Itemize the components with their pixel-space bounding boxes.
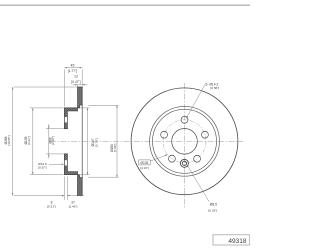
hatched hat face plate segment between bolt hole and center bore (top)	[64, 123, 67, 129]
wheel bolt hole (top)	[181, 116, 188, 123]
svg-text:[0.47"]: [0.47"]	[71, 80, 81, 84]
svg-text:Ø8.5: Ø8.5	[210, 202, 217, 206]
wheel bolt hole edges in section	[64, 117, 67, 166]
wheel bolt hole (upper left)	[161, 131, 168, 138]
dimension Ø68 [2.68"] center bore (left)	[46, 124, 64, 159]
svg-text:[2.68"]: [2.68"]	[51, 136, 55, 145]
hatched top flange/disc region of rotor cross-section	[64, 87, 82, 117]
dimension Ø158 [6.22"] hat outer diameter (left)	[30, 108, 64, 175]
wheel bolt hole (lower right)	[194, 155, 201, 162]
top border line	[0, 4, 250, 6]
dimension 45 [1.77"] overall width	[64, 68, 82, 107]
svg-text:[7.09"]: [7.09"]	[113, 144, 117, 153]
svg-text:[1.46"]: [1.46"]	[69, 204, 78, 208]
hat mounting face inboard side (bottom piece)	[66, 154, 68, 172]
svg-text:[4.13"]: [4.13"]	[140, 166, 149, 170]
svg-text:49318: 49318	[228, 238, 246, 245]
relief groove top edge (bottom)	[80, 177, 83, 179]
hatched bottom flange/disc region of rotor cross-section	[64, 166, 82, 196]
dimension Ø147 [5.79"] disc inner diameter (right of section)	[81, 108, 90, 175]
relief groove wall (top)	[79, 105, 81, 108]
center bore top edge	[64, 128, 67, 130]
leader 5- Ø14.2 [0.56"]	[187, 85, 205, 118]
relief groove bottom edge (top)	[80, 104, 83, 106]
relief groove wall (bottom)	[79, 175, 81, 178]
hatched hat face plate segment between center bore and bolt hole (bottom)	[64, 154, 67, 160]
svg-text:[0.33"]: [0.33"]	[208, 208, 217, 212]
friction surface inner circle	[150, 106, 220, 176]
svg-text:[6.22"]: [6.22"]	[27, 136, 31, 145]
vertical centerline of front view	[184, 83, 186, 208]
rotor outer diameter circle	[131, 88, 238, 195]
svg-text:[5.79"]: [5.79"]	[94, 138, 98, 147]
horizontal centerline through both views	[50, 140, 243, 142]
disc outer diameter bottom edge	[78, 195, 83, 197]
svg-text:[1.77"]: [1.77"]	[68, 69, 78, 73]
leader Ø8.5 [0.33"]	[187, 166, 209, 202]
hat mounting face inboard side (top piece)	[66, 111, 68, 129]
disc outer diameter top edge	[78, 86, 83, 88]
hat cylinder inner surface (top)	[67, 110, 77, 112]
svg-text:[0.31"]: [0.31"]	[47, 204, 56, 208]
disc outboard friction face	[81, 87, 83, 196]
center bore bottom edge	[64, 153, 67, 155]
hat cylinder outer surface (top)	[64, 107, 79, 109]
disc inboard face (top)	[77, 87, 79, 111]
set screw hole (double circle)	[180, 159, 188, 167]
svg-text:[10.55"]: [10.55"]	[7, 135, 11, 145]
svg-text:12: 12	[74, 75, 78, 79]
dimension Ø268 [10.55"] rotor outer diameter (far left)	[13, 87, 77, 196]
svg-text:Ø105: Ø105	[140, 161, 148, 165]
svg-text:[0.57"]: [0.57"]	[38, 166, 46, 170]
svg-text:[0.56"]: [0.56"]	[210, 86, 219, 90]
leader and boxed label Ø105 [4.13"] bolt circle	[150, 155, 166, 161]
hat cylinder outer surface (bottom)	[64, 174, 79, 176]
svg-text:45: 45	[71, 64, 75, 68]
hat outer circle	[153, 109, 217, 173]
center bore circle	[172, 129, 198, 155]
hat cylinder inner surface (bottom)	[67, 171, 77, 173]
dimension Ø180 [7.09"] friction surface inner diameter (right of section)	[88, 105, 119, 177]
disc inboard face (bottom)	[77, 172, 79, 196]
hat mounting face outboard side (bottom piece)	[63, 154, 65, 175]
hat mounting face outboard side (top piece)	[63, 108, 65, 129]
part number box	[213, 235, 250, 245]
wheel bolt hole (lower left)	[168, 155, 175, 162]
bolt circle (dash-dot)	[163, 120, 206, 163]
rotor cross-section outline	[64, 87, 82, 196]
dimension 8 [0.31"] hat face thickness (bottom)	[48, 177, 84, 200]
wheel bolt hole (upper right)	[201, 131, 208, 138]
